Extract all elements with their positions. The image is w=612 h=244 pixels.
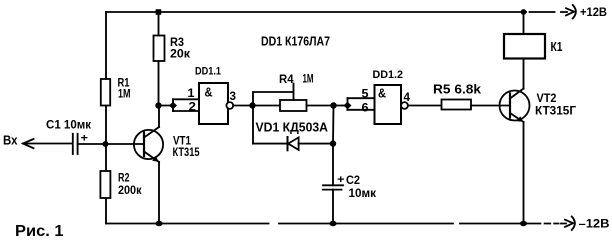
resistor R1	[101, 79, 110, 106]
wire C2 top lead	[332, 144, 334, 186]
wire bottom rail dash segments	[545, 223, 566, 225]
svg-text:VD1 КД503А: VD1 КД503А	[256, 121, 329, 135]
svg-text:С2: С2	[346, 173, 360, 187]
svg-text:+: +	[81, 133, 89, 145]
node R3 top junction	[156, 9, 162, 15]
wire R3 top	[158, 12, 160, 36]
svg-text:2: 2	[189, 100, 197, 114]
node VD1 C2 junction	[330, 140, 336, 146]
svg-text:4: 4	[404, 90, 411, 104]
svg-text:3: 3	[230, 89, 237, 103]
svg-text:DD1.2: DD1.2	[373, 69, 404, 81]
node VT2 emitter on rail	[520, 221, 527, 226]
op-amp gate DD1.2	[375, 85, 402, 124]
transistor VT2	[500, 89, 530, 123]
wire VT1 collector to node	[158, 106, 160, 128]
wire bottom -12V rail	[106, 223, 540, 225]
svg-text:+12В: +12В	[580, 5, 607, 19]
svg-text:&: &	[205, 86, 213, 100]
wire VT1 emitter to rail	[158, 162, 160, 224]
relay K1	[504, 34, 545, 59]
svg-text:С1 10мк: С1 10мк	[46, 118, 92, 132]
node DD1.2 output inversion circle	[401, 102, 408, 109]
wire left vertical branch	[105, 12, 107, 224]
wire DD1.1 fork bar	[172, 99, 174, 111]
wire DD1.1 pin2	[173, 110, 199, 112]
node DD1.1 input junction	[155, 102, 161, 108]
wire C2 bottom lead	[332, 190, 334, 224]
svg-text:Рис. 1: Рис. 1	[15, 223, 64, 240]
wire DD1.2 pin6	[348, 109, 375, 111]
svg-text:&: &	[378, 87, 386, 101]
node DD1.2 fork diamond	[344, 102, 352, 110]
svg-text:1М: 1М	[303, 72, 314, 86]
resistor R5	[442, 100, 472, 110]
svg-text:DD1 К176ЛА7: DD1 К176ЛА7	[261, 34, 330, 49]
svg-text:–12В: –12В	[579, 217, 610, 231]
op-amp gate DD1.1	[199, 83, 228, 124]
wire VD1 branch left horizontal	[253, 143, 288, 145]
node VT1 emitter on rail	[155, 221, 162, 226]
wire R3 bottom to node	[158, 61, 160, 106]
svg-text:Вх: Вх	[3, 133, 18, 148]
svg-text:R4: R4	[279, 72, 294, 86]
svg-text:R5 6.8k: R5 6.8k	[433, 83, 481, 97]
svg-text:DD1.1: DD1.1	[195, 66, 221, 78]
wire R5 to VT2 base	[471, 105, 510, 107]
wire DD1.1 output	[233, 105, 252, 107]
wire VT2 collector to K1	[523, 59, 525, 89]
svg-text:6: 6	[362, 101, 369, 115]
wire R4 right lead	[307, 105, 334, 107]
wire DD1.2 output	[408, 105, 442, 107]
svg-text:КТ315: КТ315	[173, 145, 200, 159]
svg-text:1М: 1М	[118, 87, 131, 101]
svg-text:К1: К1	[551, 40, 563, 54]
power connector -12V	[565, 217, 575, 230]
wire VD1 branch right horizontal	[299, 143, 333, 145]
wire VD1 branch left vertical	[252, 106, 254, 144]
node R4 right junction	[330, 102, 336, 108]
capacitor C2	[323, 185, 343, 189]
wire node to DD1.2 fork	[334, 105, 348, 107]
wire R4 left lead	[253, 105, 281, 107]
wire DD1.1 pin1	[173, 98, 199, 100]
svg-text:20к: 20к	[170, 47, 191, 61]
resistor R4	[280, 100, 307, 111]
diode VD1	[288, 137, 299, 150]
svg-text:КТ315Г: КТ315Г	[535, 104, 576, 118]
power connector +12V	[566, 5, 576, 18]
svg-text:10мк: 10мк	[349, 186, 377, 200]
transistor VT1	[134, 127, 163, 162]
svg-text:200к: 200к	[118, 183, 142, 197]
wire VT2 emitter to rail	[523, 122, 525, 224]
svg-text:5: 5	[362, 87, 369, 101]
wire input with left arrow	[23, 139, 73, 148]
node input junction	[103, 141, 109, 147]
node DD1.1 fork diamond	[169, 102, 177, 110]
node K1 top junction	[521, 9, 527, 15]
resistor R2	[100, 171, 110, 198]
svg-text:+: +	[337, 174, 345, 186]
wire R4 wiper link	[253, 84, 294, 106]
wire K1 top lead	[523, 12, 525, 34]
wire top +12V rail	[106, 11, 567, 13]
wire VD1 junction up to R4 node	[332, 106, 335, 144]
svg-text:1: 1	[188, 86, 195, 100]
wire DD1.2 fork bar	[347, 98, 349, 110]
wire DD1.2 pin5	[348, 97, 375, 99]
node DD1.1 output inversion circle	[226, 102, 233, 109]
node C2 on rail	[329, 221, 336, 226]
capacitor C1	[73, 134, 78, 154]
wire node to DD1.1 input fork	[159, 105, 174, 107]
node R4 left junction	[249, 102, 255, 108]
resistor R3	[154, 36, 165, 62]
wire C1 to base node	[78, 143, 144, 145]
